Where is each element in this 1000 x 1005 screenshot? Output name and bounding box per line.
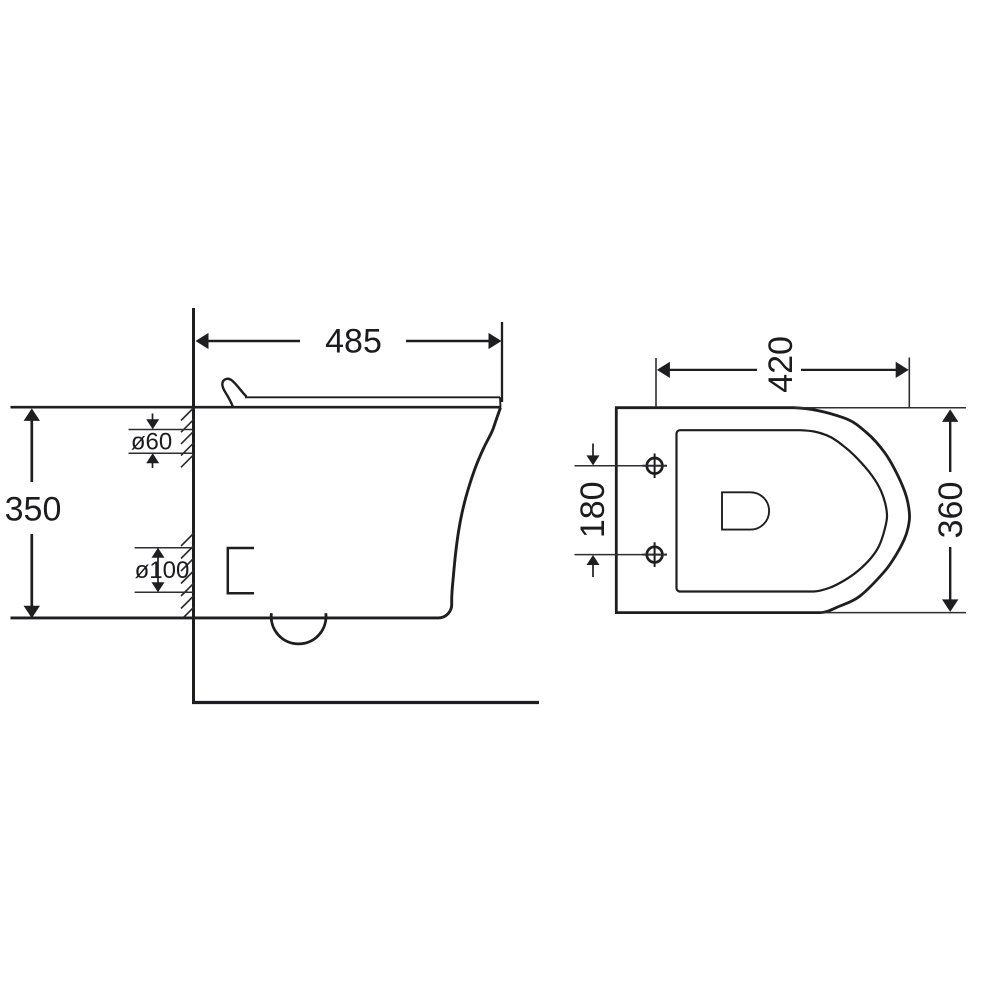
svg-text:420: 420 xyxy=(762,336,800,393)
svg-text:180: 180 xyxy=(574,481,612,538)
svg-text:ø60: ø60 xyxy=(131,429,172,456)
svg-text:ø100: ø100 xyxy=(135,557,190,584)
svg-text:485: 485 xyxy=(325,323,382,361)
svg-text:350: 350 xyxy=(5,490,62,528)
svg-text:360: 360 xyxy=(932,482,970,539)
